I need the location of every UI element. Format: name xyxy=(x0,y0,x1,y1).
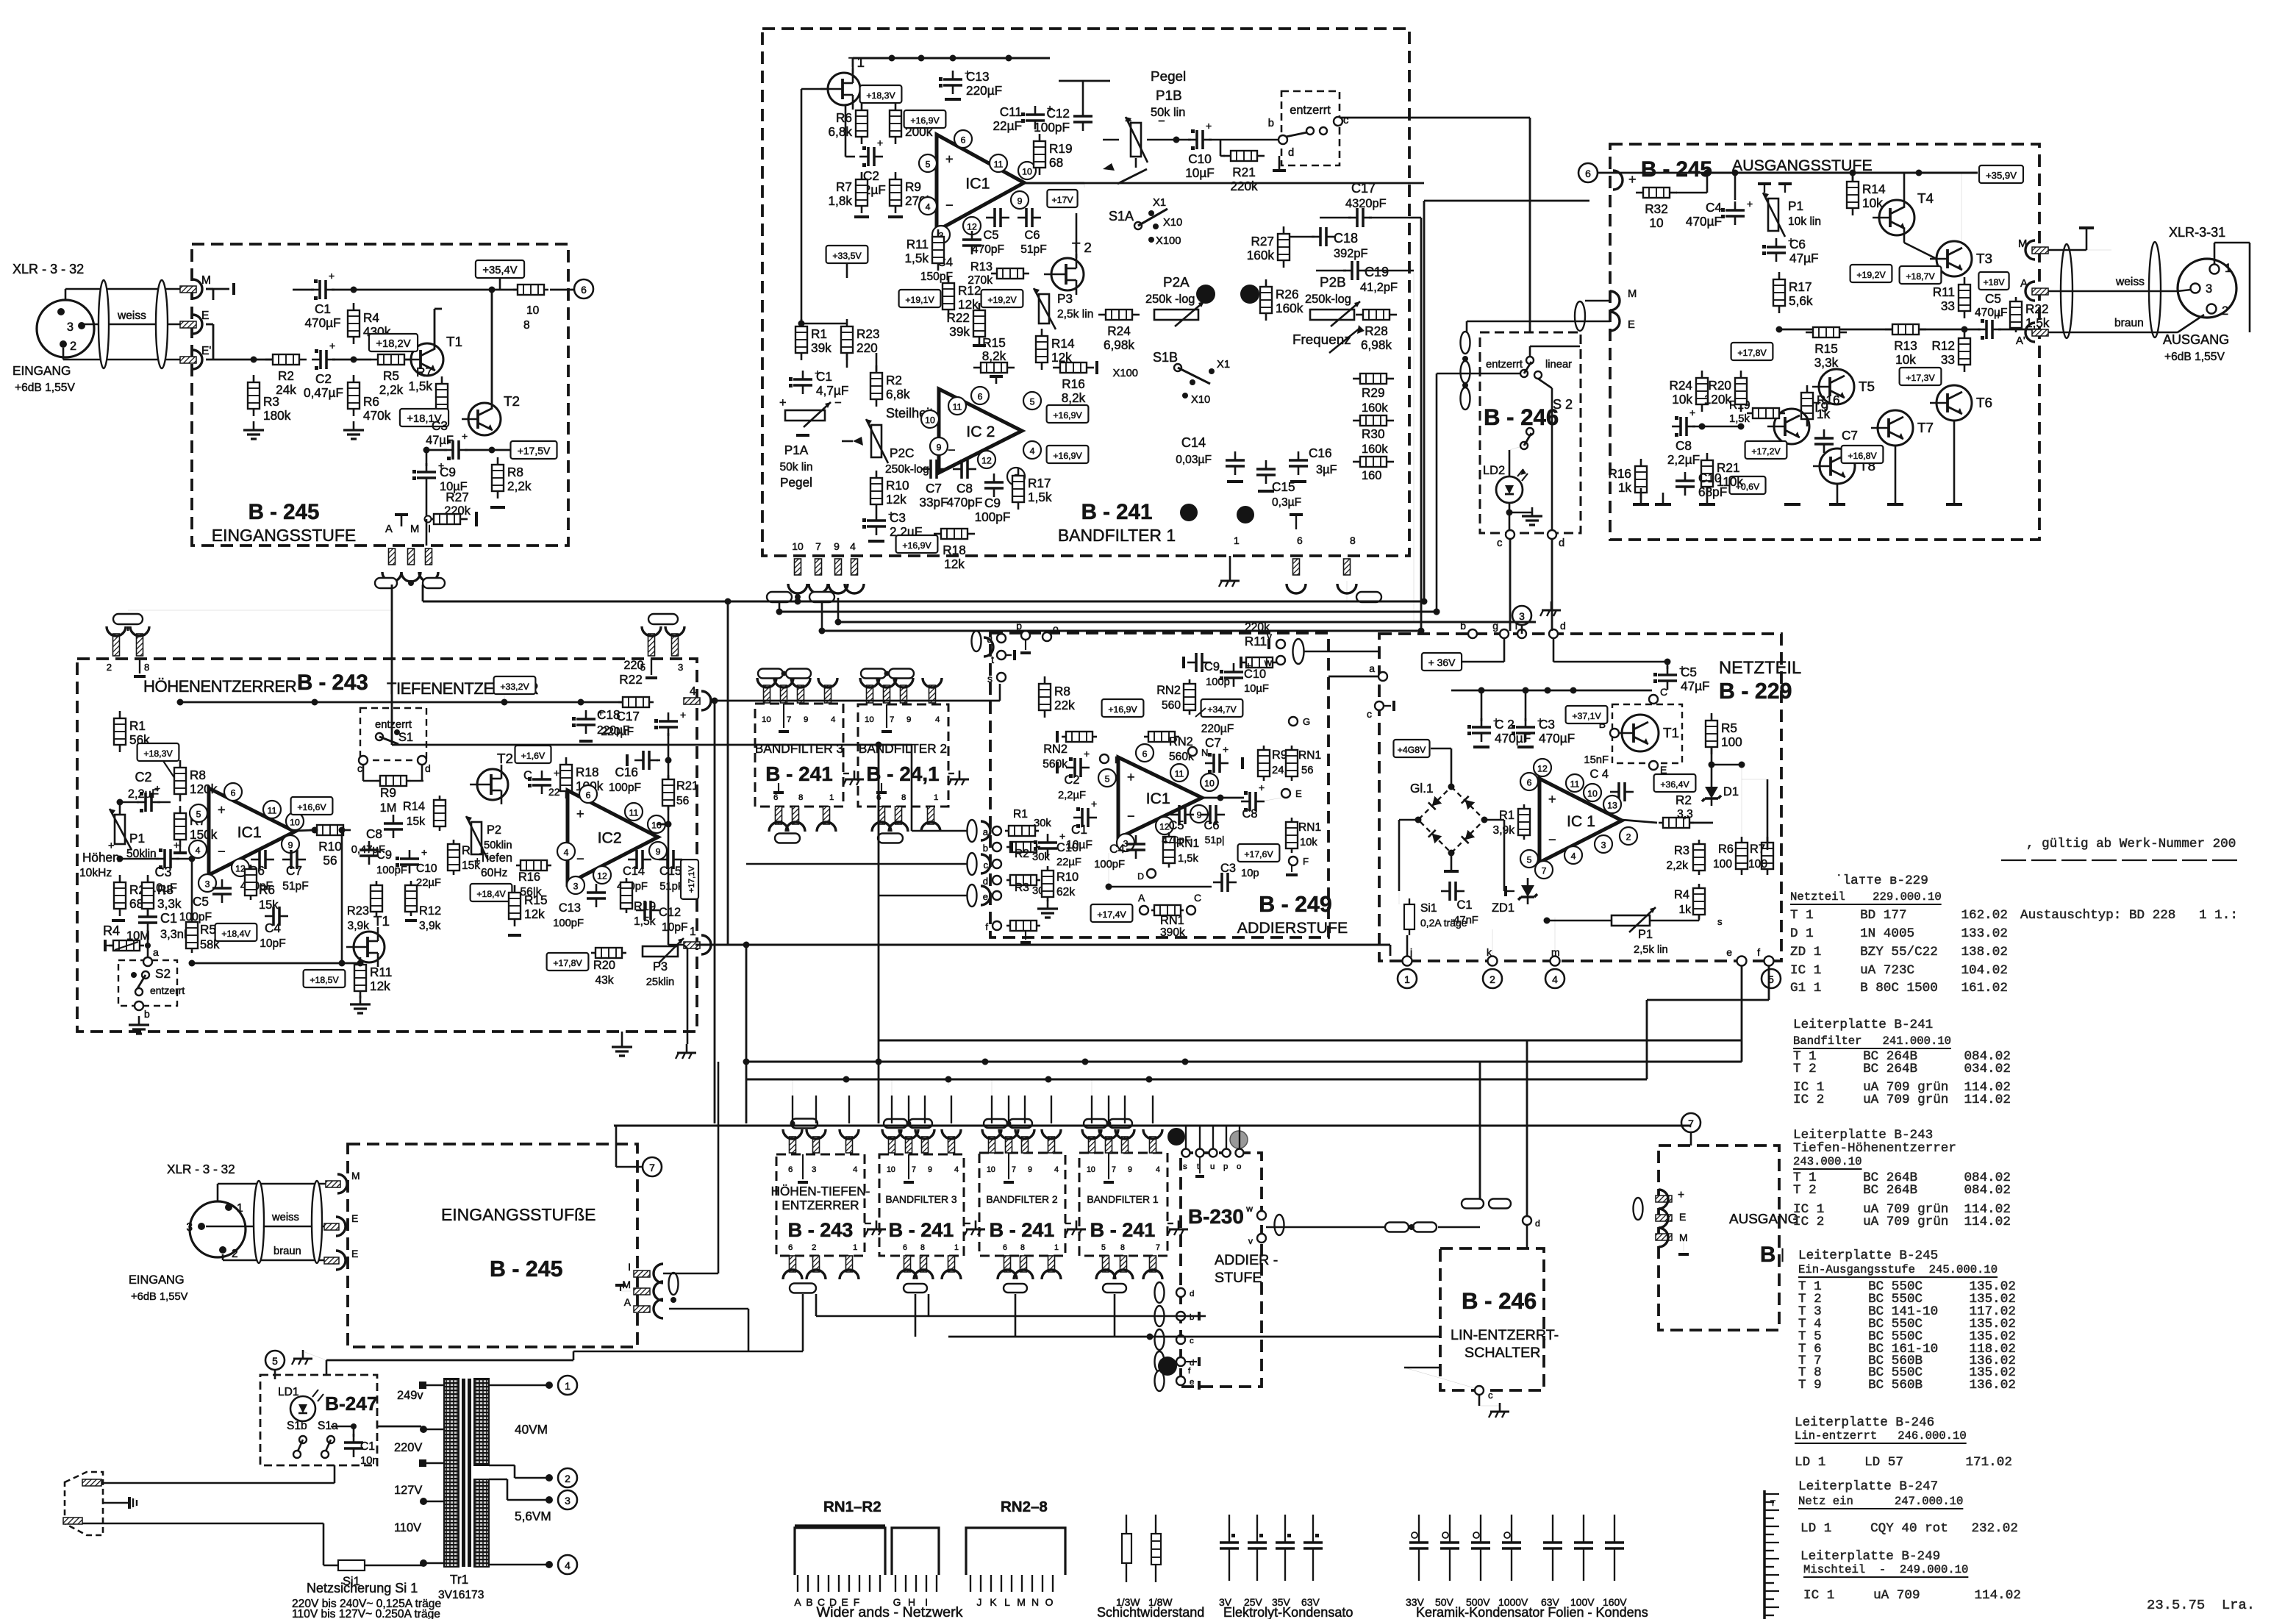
resistor R15 3,3k xyxy=(1813,327,1839,337)
pin 3 xyxy=(932,226,950,243)
ground R7 xyxy=(174,851,187,854)
svg-text:R9: R9 xyxy=(905,179,921,194)
svg-text:10: 10 xyxy=(651,821,662,831)
svg-text:R2: R2 xyxy=(1675,793,1692,807)
svg-text:10pF: 10pF xyxy=(260,937,286,950)
svg-text:SCHALTER: SCHALTER xyxy=(1464,1345,1540,1361)
voltage +16,9V IC2 a xyxy=(1047,405,1089,423)
ground pin5 xyxy=(645,676,657,679)
svg-text:11: 11 xyxy=(1175,769,1184,779)
svg-text:S1B: S1B xyxy=(1153,350,1178,365)
svg-text:10n: 10n xyxy=(360,1455,379,1467)
svg-text:K: K xyxy=(990,1596,997,1608)
svg-text:IC 2: IC 2 xyxy=(966,423,995,440)
svg-text:243.000.10: 243.000.10 xyxy=(1793,1155,1862,1168)
wire top rail xyxy=(332,289,500,291)
wire pills to lower bus xyxy=(802,1294,804,1351)
supply rail 229 xyxy=(1451,690,1652,692)
svg-text:8: 8 xyxy=(901,793,906,802)
svg-text:1k: 1k xyxy=(1679,904,1692,916)
svg-text:10µF: 10µF xyxy=(1244,683,1269,695)
wire bottom verticals 229 xyxy=(1406,935,1409,956)
svg-text:S2: S2 xyxy=(155,966,171,981)
svg-text:0,2A träge: 0,2A träge xyxy=(1420,917,1467,929)
svg-text:1,5k: 1,5k xyxy=(2025,315,2050,330)
output cable shield xyxy=(2061,244,2073,338)
svg-text:+: + xyxy=(1678,1189,1684,1201)
resistor R1 56k xyxy=(114,718,126,745)
chassis gnd 5 xyxy=(302,1350,304,1359)
svg-text:X10: X10 xyxy=(1191,394,1210,406)
wire top right B241 c down xyxy=(1409,117,1530,119)
ground R22 xyxy=(973,344,986,347)
wire GL1 left xyxy=(1399,819,1418,821)
pin 3 229 xyxy=(1595,835,1612,853)
module box B-243 bottom xyxy=(776,1154,865,1256)
svg-text:d: d xyxy=(1535,1218,1540,1229)
svg-text:250k -log: 250k -log xyxy=(1145,293,1195,306)
connector pill M xyxy=(1575,301,1585,331)
wire T1 top rail xyxy=(853,57,1050,59)
input terminals a-f xyxy=(993,826,1001,835)
svg-text:entzerrt: entzerrt xyxy=(375,719,412,731)
svg-text:58k: 58k xyxy=(200,938,220,951)
node 3 circle xyxy=(1512,606,1531,625)
svg-text:C5: C5 xyxy=(1985,291,2001,306)
terminal circles 1-4 xyxy=(558,1376,577,1395)
wire down to A M I pins xyxy=(426,519,428,546)
svg-text:R5: R5 xyxy=(383,368,399,383)
capacitor C3 2,2uF xyxy=(867,519,886,522)
svg-text:10: 10 xyxy=(865,715,874,724)
svg-text:R23: R23 xyxy=(347,904,369,918)
capacitor C2 2,2uF 249 xyxy=(1073,758,1076,777)
potentiometer P2 50klin xyxy=(471,822,482,854)
svg-text:P2A: P2A xyxy=(1163,274,1190,290)
pin 9 ic2 xyxy=(649,842,667,859)
svg-text:2: 2 xyxy=(2222,304,2228,318)
legend Folien caps xyxy=(1552,1515,1553,1543)
svg-text:B-247: B-247 xyxy=(325,1393,377,1415)
svg-text:51pF: 51pF xyxy=(282,880,309,893)
svg-text:Wider ands - Netzwerk: Wider ands - Netzwerk xyxy=(817,1604,963,1619)
svg-text:C17: C17 xyxy=(1351,181,1376,196)
pin 11 xyxy=(948,397,966,415)
svg-text:Leiterplatte B-245: Leiterplatte B-245 xyxy=(1798,1248,1938,1263)
svg-text:R10: R10 xyxy=(886,478,909,493)
voltage +36,4V xyxy=(1654,774,1696,792)
voltage +17,2V xyxy=(1745,441,1787,459)
svg-text:L: L xyxy=(1004,1596,1010,1608)
svg-text:5,6k: 5,6k xyxy=(1789,293,1813,308)
wire 2240 vertical xyxy=(1646,1000,1648,1079)
svg-text:62k: 62k xyxy=(1056,886,1075,898)
module box B-241 Bandfilter 1 xyxy=(762,29,1409,556)
svg-text:1,8k: 1,8k xyxy=(828,193,852,208)
pin 11 xyxy=(990,154,1007,172)
module box B-243 xyxy=(77,659,697,1032)
transistor T4 xyxy=(1879,200,1914,235)
module box B-229 Netzteil xyxy=(1379,634,1781,961)
svg-text:T 2 BC 264B 084.02: T 2 BC 264B 084.02 xyxy=(1793,1183,2011,1198)
pin 3 ic2 xyxy=(567,876,584,894)
voltage +19,1V xyxy=(899,290,941,307)
svg-text:+16,8V: +16,8V xyxy=(1848,451,1877,461)
svg-text:C3: C3 xyxy=(890,510,906,525)
svg-text:11: 11 xyxy=(268,806,277,816)
wire M E left out xyxy=(1585,300,1610,302)
wire b246lin feeds xyxy=(1479,1062,1481,1198)
transistor T1 xyxy=(411,343,443,376)
transistor T2 xyxy=(468,403,501,435)
capacitor C16 3uF xyxy=(1289,459,1308,462)
svg-text:+18,7V: +18,7V xyxy=(1906,271,1935,282)
svg-text:R16: R16 xyxy=(1608,466,1631,481)
svg-text:+19,2V: +19,2V xyxy=(987,295,1017,305)
svg-text:R8: R8 xyxy=(1054,684,1070,698)
voltage +33,5V xyxy=(826,246,868,263)
wire out 249 xyxy=(1202,797,1244,799)
capacitor C14 0,03uF xyxy=(1226,459,1245,462)
svg-text:T3: T3 xyxy=(1976,251,1992,266)
op-amp IC1 229 xyxy=(1539,779,1622,862)
node 2 circle xyxy=(1483,969,1502,988)
chassis gnd node3 xyxy=(1551,601,1553,610)
connector top 249 xyxy=(973,646,980,648)
resistor R6 100 xyxy=(1736,843,1748,869)
svg-text:R11: R11 xyxy=(370,965,392,979)
svg-text:C1: C1 xyxy=(160,911,177,926)
svg-text:22µF: 22µF xyxy=(1056,857,1081,868)
wire T2 drain xyxy=(1076,213,1078,258)
svg-text:R23: R23 xyxy=(856,326,880,341)
svg-text:+35,4V: +35,4V xyxy=(482,265,517,276)
svg-text:+16,9V: +16,9V xyxy=(902,540,931,551)
capacitor C10 22uF xyxy=(400,857,419,860)
resistor R21 220k xyxy=(1231,151,1257,161)
transformer secondary winding 40V xyxy=(474,1379,489,1465)
transistor T1 fet xyxy=(354,932,385,962)
svg-text:4: 4 xyxy=(954,1165,959,1174)
svg-text:T1: T1 xyxy=(373,913,390,929)
svg-text:R12: R12 xyxy=(958,283,981,298)
pin 3 xyxy=(1007,468,1025,485)
terminal F xyxy=(1289,857,1298,865)
svg-text:e: e xyxy=(1726,946,1732,958)
svg-text:BANDFILTER 1: BANDFILTER 1 xyxy=(1087,1193,1159,1205)
svg-text:R13: R13 xyxy=(1894,338,1917,353)
wire node6 to rail xyxy=(1598,172,1707,174)
wire bus vertical V4 xyxy=(727,601,729,945)
svg-text:4: 4 xyxy=(1054,1165,1059,1174)
connector pins A M I below box xyxy=(389,548,396,565)
svg-text:2: 2 xyxy=(812,1243,816,1252)
resistor R1 39k xyxy=(795,326,807,353)
wire a terminal left xyxy=(1328,676,1378,678)
wire entzerrt feed xyxy=(1437,373,1520,375)
svg-text:O: O xyxy=(1045,1596,1054,1608)
svg-text:160k: 160k xyxy=(1362,443,1388,456)
svg-text:v: v xyxy=(1248,1236,1253,1246)
svg-text:7: 7 xyxy=(1542,866,1547,876)
wire bus H7c xyxy=(746,1078,1647,1080)
resistor R11 220k 249 xyxy=(1246,657,1273,668)
connector XLR-3-32 bottom xyxy=(190,1201,246,1257)
bf3b gnd xyxy=(975,1220,977,1229)
node 5 circle xyxy=(1762,969,1781,988)
svg-text:10µF: 10µF xyxy=(1185,165,1215,180)
svg-text:+18,2V: +18,2V xyxy=(376,338,410,350)
bf2 right gnd xyxy=(959,771,961,779)
svg-text:A': A' xyxy=(2016,335,2025,347)
svg-text:R24: R24 xyxy=(1107,324,1131,338)
pin 6 ic2 xyxy=(579,785,597,803)
tbar terminals b230 xyxy=(1198,1312,1201,1320)
voltage +16,6V xyxy=(291,797,333,815)
svg-text:+17,4V: +17,4V xyxy=(1097,909,1126,920)
svg-text:b: b xyxy=(1268,118,1274,129)
svg-text:+16,9V: +16,9V xyxy=(1053,451,1082,461)
pin 12 249 xyxy=(1156,817,1173,834)
svg-text:6: 6 xyxy=(586,790,591,801)
svg-text:c: c xyxy=(1488,1390,1493,1401)
wire b245 to b243 top xyxy=(127,626,129,631)
svg-text:b: b xyxy=(983,843,988,854)
ground R27 xyxy=(475,512,478,526)
ground pin1 xyxy=(1229,572,1231,581)
svg-text:50klin: 50klin xyxy=(484,840,512,851)
pill b246lin 1 xyxy=(1462,1199,1484,1209)
svg-text:C13: C13 xyxy=(559,901,581,915)
terminal c b246 xyxy=(1506,530,1514,539)
ground R8 xyxy=(490,506,505,509)
voltage +17,3V xyxy=(1900,368,1942,385)
svg-text:ZD 1 BZY 55/C22 138.02: ZD 1 BZY 55/C22 138.02 xyxy=(1790,945,2008,959)
svg-text:C14: C14 xyxy=(623,865,645,878)
svg-text:+: + xyxy=(554,767,559,779)
pin 5 249 xyxy=(1098,769,1116,787)
secondary taps xyxy=(546,1382,553,1389)
capacitor C1 10uF 249 xyxy=(1081,808,1084,827)
svg-text:+: + xyxy=(1127,770,1135,785)
svg-text:+17,5V: +17,5V xyxy=(518,445,551,457)
transistor T7 xyxy=(1878,410,1913,446)
svg-text:9: 9 xyxy=(1018,196,1023,207)
legend Schichtwiderstand res2 xyxy=(1151,1534,1161,1565)
svg-text:12: 12 xyxy=(1537,764,1548,774)
resistor R13 15k xyxy=(448,844,459,871)
svg-text:T4: T4 xyxy=(1917,190,1934,206)
svg-text:7: 7 xyxy=(815,540,821,552)
svg-text:R11: R11 xyxy=(906,237,929,251)
transistor T1 box 229 xyxy=(1612,704,1682,763)
svg-text:10k lin: 10k lin xyxy=(1788,215,1821,228)
voltage +35,9V xyxy=(1979,165,2023,183)
wire bus H7a xyxy=(879,1039,1742,1041)
wire c left xyxy=(1404,1368,1475,1388)
connector XLR-3-32 input xyxy=(37,300,94,357)
svg-text:A: A xyxy=(794,1596,801,1608)
svg-text:c: c xyxy=(357,762,362,774)
svg-text:B - 241: B - 241 xyxy=(990,1219,1055,1241)
svg-text:Leiterplatte B-243: Leiterplatte B-243 xyxy=(1793,1128,1933,1143)
svg-text:IC 1: IC 1 xyxy=(1567,812,1595,830)
svg-text:3: 3 xyxy=(1519,610,1525,622)
xlr wires bottom xyxy=(217,1184,219,1201)
pin 9 249 xyxy=(1190,805,1208,823)
svg-text:+17,6V: +17,6V xyxy=(1244,849,1273,859)
wire top rail b243 xyxy=(180,701,629,704)
svg-text:C4: C4 xyxy=(265,921,281,935)
bf3 right gnd xyxy=(854,771,856,779)
wire B241 bottom right to bus xyxy=(1346,581,1348,601)
svg-text:B - 241: B - 241 xyxy=(765,762,832,785)
svg-text:I: I xyxy=(628,1261,631,1273)
svg-text:T2: T2 xyxy=(497,751,513,766)
svg-text:C14: C14 xyxy=(1181,435,1206,450)
resistor R9 24,3k xyxy=(1258,750,1270,776)
svg-text:10: 10 xyxy=(1087,1165,1095,1174)
svg-text:3µF: 3µF xyxy=(1316,463,1337,476)
ground bars xyxy=(1758,182,1771,185)
svg-text:3V16173: 3V16173 xyxy=(438,1589,484,1601)
svg-text:IC 2 uA 709 grün 114.02: IC 2 uA 709 grün 114.02 xyxy=(1793,1215,2011,1229)
svg-text:+: + xyxy=(421,846,427,858)
voltage +17,4V xyxy=(1091,904,1133,922)
wire B241 pins down xyxy=(779,603,781,612)
svg-text:ADDIERSTUFE: ADDIERSTUFE xyxy=(1237,919,1348,937)
svg-text:41,2pF: 41,2pF xyxy=(1360,281,1398,294)
svg-text:P2: P2 xyxy=(487,823,501,837)
svg-text:Netz ein 247.000.10: Netz ein 247.000.10 xyxy=(1798,1495,1963,1508)
pin 12 xyxy=(978,451,995,468)
svg-text:2,2k: 2,2k xyxy=(1667,859,1689,872)
voltage +36V xyxy=(1422,653,1462,671)
voltage +18,4V xyxy=(215,923,257,941)
wire braun xyxy=(2048,332,2178,334)
svg-text:−: − xyxy=(218,844,226,859)
svg-text:R11: R11 xyxy=(1933,285,1955,299)
svg-text:3: 3 xyxy=(67,321,74,334)
cable shield xyxy=(99,280,109,368)
svg-text:4: 4 xyxy=(196,846,201,856)
svg-text:R12: R12 xyxy=(419,904,441,918)
resistor RN2 560 xyxy=(1184,684,1195,710)
wire R6 R7 up xyxy=(1741,765,1742,850)
ground S2 xyxy=(138,1016,140,1025)
pin 11 ic2 xyxy=(625,803,643,821)
svg-text:6: 6 xyxy=(1585,168,1591,179)
black dot marker 2 xyxy=(1237,506,1254,523)
wire c connect xyxy=(746,863,968,865)
svg-text:RN2: RN2 xyxy=(1169,735,1193,748)
svg-text:3,3k: 3,3k xyxy=(1814,355,1839,370)
resistor R26 160k xyxy=(1260,287,1272,313)
svg-text:10: 10 xyxy=(792,540,804,552)
wire right edge B249 to NETZTEIL xyxy=(1304,651,1379,653)
diode D1 xyxy=(1705,787,1718,798)
wires B241 internals misc xyxy=(801,323,847,325)
resistor R2 6,8k xyxy=(870,373,882,399)
svg-text:R29: R29 xyxy=(1362,385,1385,400)
svg-text:6: 6 xyxy=(978,392,983,402)
svg-text:S1A: S1A xyxy=(1109,209,1134,224)
wire bus H8 xyxy=(614,1124,1691,1126)
svg-text:100: 100 xyxy=(1713,858,1732,871)
svg-text:60Hz: 60Hz xyxy=(481,867,508,879)
legend RN1 part2 xyxy=(892,1528,939,1575)
svg-text:4,7µF: 4,7µF xyxy=(816,383,848,398)
capacitor C1 47nF xyxy=(1448,882,1451,901)
svg-text:+: + xyxy=(174,839,179,851)
svg-text:47µF: 47µF xyxy=(1681,679,1710,693)
svg-text:1: 1 xyxy=(853,1243,857,1252)
svg-text:u: u xyxy=(1210,1162,1215,1171)
svg-text:R6: R6 xyxy=(363,394,379,409)
module box B-230 xyxy=(1181,1153,1262,1387)
svg-text:C11: C11 xyxy=(1000,104,1022,119)
legend Elektrolyt caps xyxy=(1229,1515,1230,1543)
wire e connect xyxy=(879,895,968,897)
module box Bandfilter1 bottom xyxy=(1079,1153,1167,1256)
svg-text:3: 3 xyxy=(565,1495,571,1507)
resistor R24 6,98k xyxy=(1106,310,1132,320)
svg-text:8: 8 xyxy=(1020,1243,1025,1252)
module box B-245 Ausgangsstufe xyxy=(1610,144,2039,540)
svg-text:160k: 160k xyxy=(1362,401,1388,415)
svg-text:12k: 12k xyxy=(370,979,390,993)
pin 11 229 xyxy=(1566,774,1584,792)
svg-text:C10: C10 xyxy=(1188,151,1212,166)
svg-text:47µF: 47µF xyxy=(426,434,454,447)
pill right xyxy=(1356,592,1381,602)
voltage +18,4V tiefen xyxy=(471,884,512,901)
capacitor C11 22uF xyxy=(1026,113,1045,116)
connector pin 6 xyxy=(1293,559,1300,575)
wire 5 down xyxy=(274,1370,276,1379)
svg-text:R3: R3 xyxy=(157,882,174,897)
svg-text:C8: C8 xyxy=(956,481,973,496)
terminals e f xyxy=(1737,957,1747,966)
svg-text:d: d xyxy=(1190,1290,1194,1298)
svg-text:R20: R20 xyxy=(1708,378,1731,393)
svg-text:weiss: weiss xyxy=(2115,276,2145,288)
svg-text:R12: R12 xyxy=(1931,338,1955,353)
pin 6 xyxy=(224,783,242,801)
capacitor C4 15nF xyxy=(1617,782,1620,801)
svg-text:Austauschtyp: BD 228 1 1.:: Austauschtyp: BD 228 1 1.: xyxy=(2020,908,2238,923)
wire T2 collector up xyxy=(491,290,493,409)
pin 10 249 xyxy=(1201,773,1218,791)
svg-text:C: C xyxy=(1660,686,1667,698)
wire bus H9 xyxy=(392,744,912,746)
ground R11 xyxy=(360,996,362,1004)
svg-text:12: 12 xyxy=(597,871,607,882)
svg-text:5: 5 xyxy=(1101,1243,1106,1252)
svg-text:C10: C10 xyxy=(1244,668,1266,681)
svg-text:B: B xyxy=(806,1596,812,1608)
svg-text:22µF: 22µF xyxy=(993,118,1022,133)
svg-text:R19: R19 xyxy=(1049,141,1073,156)
switch box S2 xyxy=(118,960,177,1006)
svg-text:C1: C1 xyxy=(360,1440,375,1453)
resistor R15 8,2k xyxy=(981,362,1007,373)
pin 4 ic2 xyxy=(557,843,575,860)
svg-text:160: 160 xyxy=(1362,469,1381,482)
svg-text:R6: R6 xyxy=(259,882,275,897)
module box B-246 xyxy=(1480,332,1581,533)
svg-text:4: 4 xyxy=(564,848,569,858)
